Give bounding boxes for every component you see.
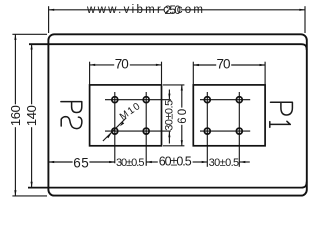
dimension text 30±0.5 (bottom left)	[116, 157, 145, 169]
dimension text 60 vertical	[177, 109, 189, 124]
plate inner top edge line	[29, 44, 307, 50]
hole L1 top-left	[112, 97, 118, 103]
dimension text 70 (right)	[217, 56, 231, 71]
dimension 160 left	[12, 34, 47, 196]
right bolt square outline	[193, 85, 265, 146]
dimension 70 right square	[193, 62, 265, 85]
label P2	[61, 102, 82, 129]
M10 leader line	[103, 118, 126, 141]
dimension 70 left square	[90, 62, 162, 85]
left bolt square outline	[90, 85, 162, 146]
svg-text:70: 70	[115, 56, 129, 71]
plate inner bottom edge line	[28, 182, 307, 188]
svg-text:30±0.5: 30±0.5	[209, 157, 240, 169]
svg-text:30±0.5: 30±0.5	[163, 100, 175, 131]
dimension text 60±0.5 (bottom middle)	[159, 154, 192, 168]
dimension 30±0.5 vertical (left square)	[168, 90, 170, 144]
svg-text:160: 160	[8, 105, 23, 126]
svg-text:60: 60	[177, 109, 189, 124]
hole L4 bottom-right	[143, 128, 149, 134]
dimension text 65	[73, 155, 89, 170]
hole R4 bottom-right	[236, 128, 242, 134]
hole L3 bottom-left	[112, 128, 118, 134]
dimension text 160	[8, 105, 23, 126]
svg-text:65: 65	[73, 155, 89, 170]
label P1	[270, 102, 293, 127]
dimension text 30±0.5 (bottom right)	[209, 157, 240, 169]
watermark www.vibmrc.com	[86, 4, 203, 16]
svg-text:70: 70	[217, 56, 231, 71]
dimension 250 top	[49, 6, 305, 33]
dimension 60 vertical (left square)	[163, 85, 184, 146]
svg-text:250: 250	[164, 3, 181, 17]
dimension text 30±0.5 vertical	[163, 100, 175, 131]
hole R2 top-right	[236, 97, 242, 103]
centerlines right square	[200, 92, 250, 167]
svg-text:M10: M10	[118, 101, 143, 123]
dimension text 250	[164, 3, 181, 17]
bottom dimension chain line	[49, 161, 250, 163]
dimension 140 left	[31, 44, 33, 188]
svg-text:140: 140	[24, 105, 39, 126]
M10 label	[118, 101, 143, 123]
svg-text:60±0.5: 60±0.5	[159, 154, 192, 168]
hole R1 top-left	[204, 97, 210, 103]
svg-text:30±0.5: 30±0.5	[116, 157, 145, 169]
hole L2 top-right	[143, 97, 149, 103]
plate outer outline	[48, 34, 306, 195]
dimension text 140	[24, 105, 39, 126]
dimension text 70 (left)	[115, 56, 129, 71]
centerlines left square	[105, 92, 171, 166]
hole R3 bottom-left	[204, 128, 210, 134]
